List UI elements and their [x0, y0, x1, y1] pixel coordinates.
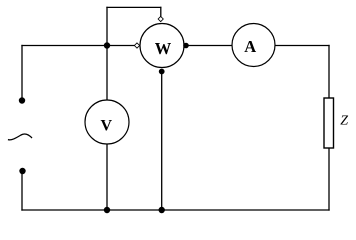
junction node bottom rail / wattmeter: [159, 207, 165, 213]
junction node at wattmeter voltage tap: [104, 42, 110, 48]
voltmeter V circle: [85, 100, 129, 144]
load impedance Z rectangle: [324, 98, 334, 148]
svg-text:A: A: [244, 37, 256, 56]
wire right vertical below Z: [328, 148, 330, 210]
wire top horizontal (potential coil feed): [107, 6, 161, 8]
wire vertical into W top terminal: [160, 7, 162, 16]
wire horizontal y=45.5 from source to W left terminal: [22, 45, 134, 47]
svg-text:Z: Z: [340, 114, 348, 129]
source bottom terminal dot: [19, 168, 25, 174]
wire left vertical upper (to switch top contact): [21, 46, 23, 98]
wattmeter left voltage terminal (open diamond): [134, 43, 139, 48]
wire vertical left branch x=107: [106, 7, 108, 100]
wire V bottom to bottom rail: [106, 145, 108, 211]
wattmeter bottom terminal (filled dot): [159, 69, 165, 75]
wattmeter U1 circle: [140, 24, 184, 68]
junction node bottom rail / voltmeter: [104, 207, 110, 213]
wire W bottom terminal to bottom rail: [161, 74, 163, 210]
wire bottom horizontal return: [22, 209, 329, 211]
ammeter A circle: [232, 24, 275, 67]
AC source tilde symbol: [8, 134, 32, 140]
svg-text:W: W: [155, 39, 172, 58]
svg-text:V: V: [101, 117, 113, 134]
wire ammeter to top-right corner: [275, 45, 329, 47]
wire W right terminal to ammeter: [189, 45, 232, 47]
wire right vertical above Z: [328, 46, 330, 99]
wattmeter top voltage terminal (open diamond): [158, 16, 163, 21]
wattmeter right current terminal (filled dot): [183, 43, 189, 49]
source top terminal dot: [19, 97, 25, 103]
wire left vertical lower (from switch bottom contact): [21, 174, 23, 210]
